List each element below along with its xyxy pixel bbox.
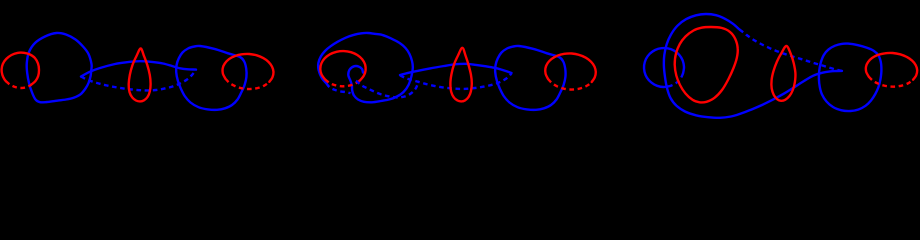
ring D1-R2 red ring threading long ring xyxy=(129,49,151,102)
ring D2-R2 red ring threading long ring xyxy=(450,48,471,102)
ring D2-R1 red ring, front arc xyxy=(320,51,365,80)
ring D3-R3 red ring, front arc xyxy=(866,53,917,80)
ring D3-L0 small blue ring, front arc (right diagram) xyxy=(644,48,684,87)
ring D2-R1 red ring, hidden arc xyxy=(325,80,360,87)
ring D2-R3 red ring, hidden arc xyxy=(548,79,592,90)
ring D3-L3 right blue loop xyxy=(819,44,882,112)
ring D3-L1 big elongated blue loop, front part xyxy=(664,14,842,118)
three chain-link diagrams on black background xyxy=(0,0,920,173)
ring D3-R3 red ring, hidden arc xyxy=(869,77,913,87)
ring D1-R1 red ring, front arc xyxy=(2,53,39,85)
ring D1-R3 red ring, hidden arc xyxy=(225,79,269,89)
ring D1-R1 red ring, hidden arc xyxy=(6,81,31,88)
ring D3-R1 big red ring inside loop xyxy=(675,27,738,102)
ring D3-L0 small blue ring, hidden arc xyxy=(670,73,683,86)
ring D2-L1 curl, hidden trail xyxy=(356,81,418,98)
ring D3-L1 big elongated blue loop, hidden top edge xyxy=(740,30,843,71)
ring D1-L2 long blue ring, front edge xyxy=(81,61,196,76)
ring D2-R3 red ring, front arc xyxy=(545,53,596,82)
ring D1-L3 right blue loop xyxy=(176,46,246,110)
ring D1-L2 long blue ring, hidden edge xyxy=(81,70,196,91)
ring D1-R3 red ring, front arc xyxy=(223,54,274,82)
ring D2-L1 big blue loop with curl (middle diagram) xyxy=(318,33,413,102)
ring D2-L3 right blue loop xyxy=(495,46,565,110)
ring D1-L1 big blue loop (left diagram) xyxy=(27,33,92,102)
ring D3-R2 red ring threading loop neck xyxy=(771,46,795,101)
ring D2-L2 long blue ring, hidden edge xyxy=(400,73,512,89)
ring D2-L2 long blue ring, front edge xyxy=(400,64,512,75)
ring D2-L1 big blue loop, hidden arc xyxy=(327,84,351,94)
